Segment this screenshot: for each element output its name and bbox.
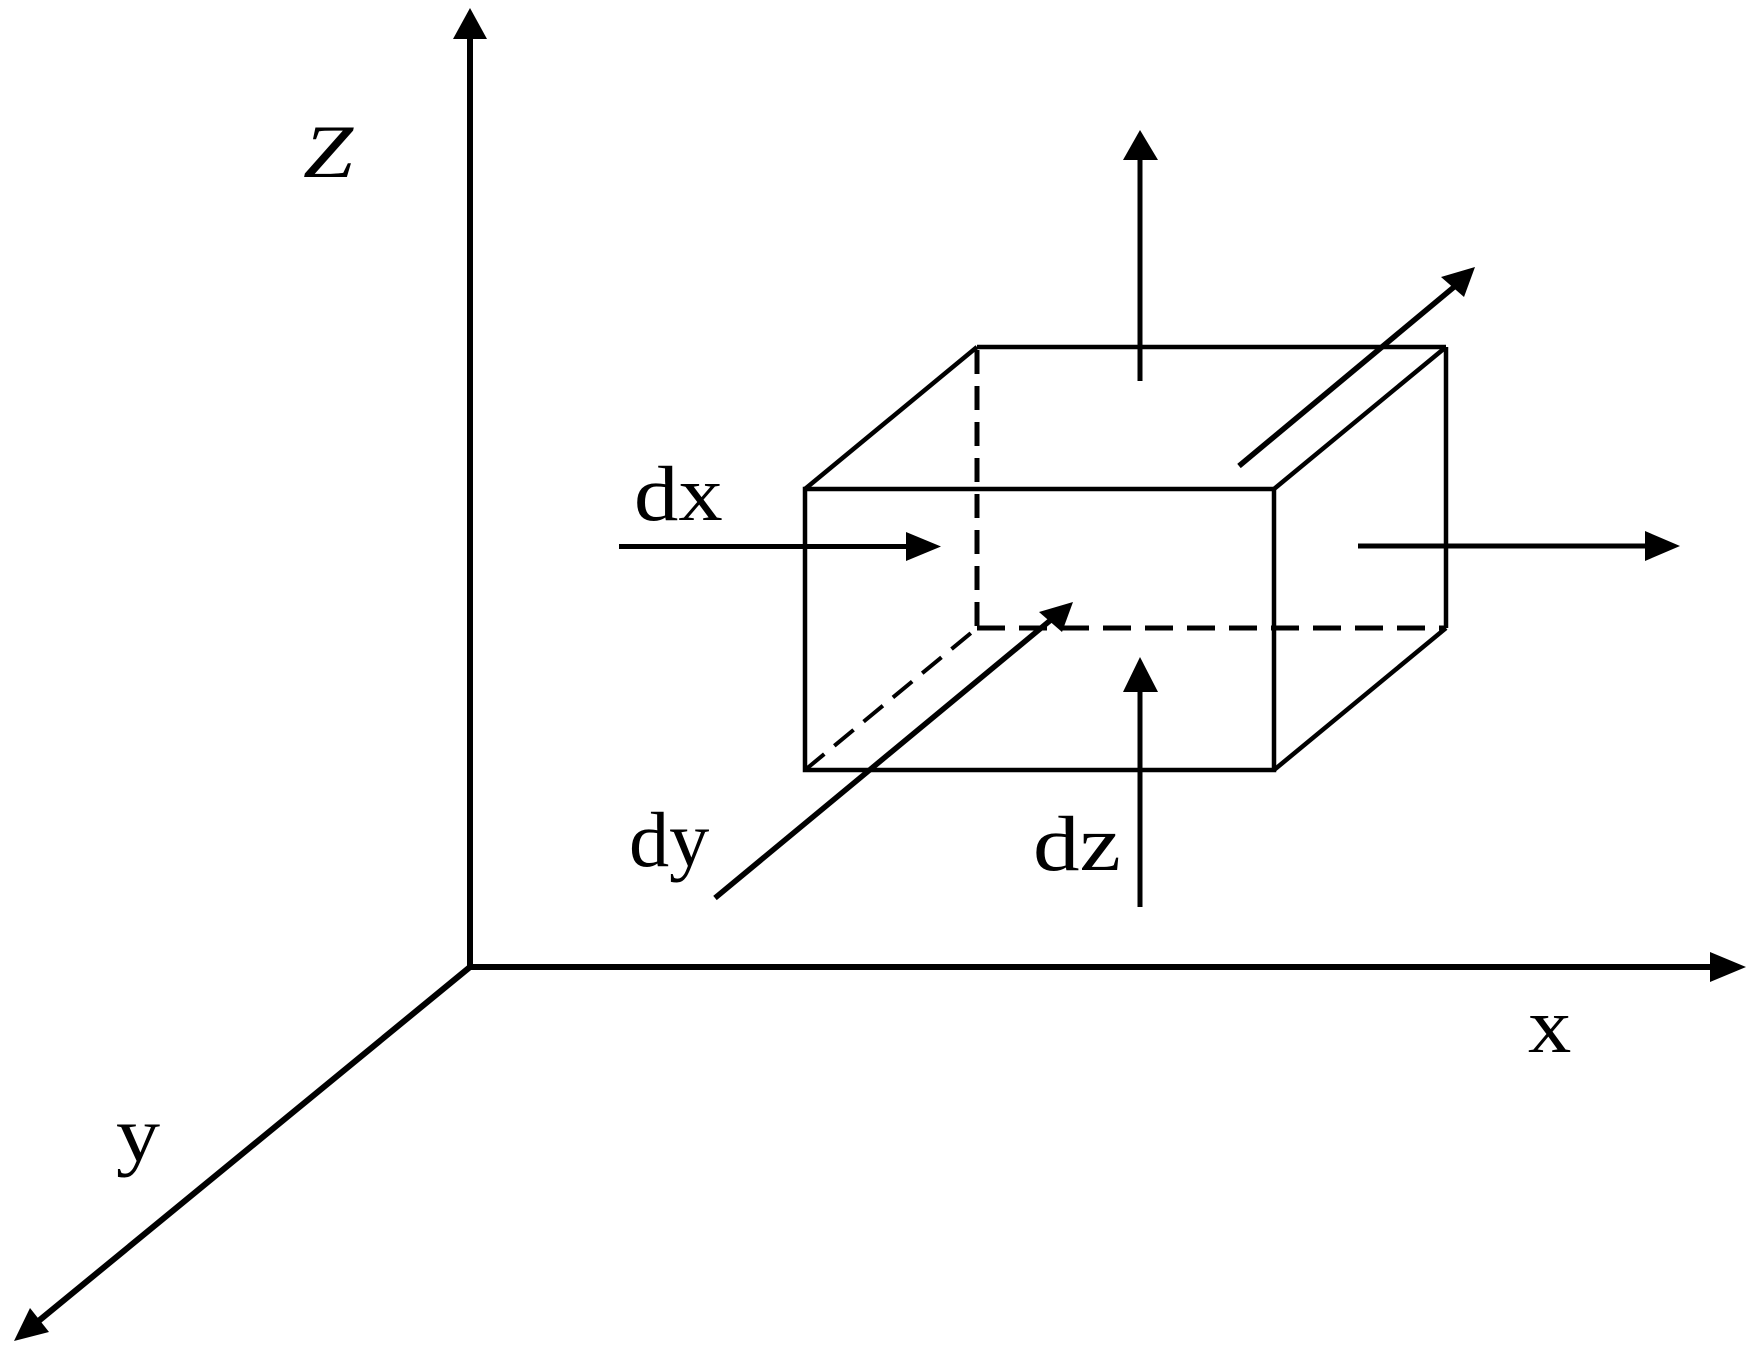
svg-text:Z: Z xyxy=(303,110,354,193)
flux arrow dz (up into bottom face) xyxy=(1123,657,1158,907)
flux arrow out of back face (top-right diagonal) xyxy=(1239,267,1475,466)
flux arrow dy (diagonal into bottom) xyxy=(715,602,1073,898)
svg-text:dx: dx xyxy=(634,452,723,538)
flux arrow out of top face xyxy=(1123,130,1158,381)
flux arrow out of right face xyxy=(1358,531,1680,561)
box front face xyxy=(805,489,1274,770)
svg-text:x: x xyxy=(1528,983,1571,1069)
box bottom-right edge xyxy=(1274,628,1446,770)
svg-text:dz: dz xyxy=(1033,800,1121,887)
y-axis xyxy=(14,967,470,1341)
z-axis xyxy=(453,8,487,967)
box hidden bottom-left diagonal edge (dashed) xyxy=(805,628,977,770)
box hidden back-bottom edge (dashed) xyxy=(977,626,1446,631)
box back-top edge xyxy=(977,345,1446,350)
flux arrow dx (into left face) xyxy=(619,532,941,561)
box top-left edge xyxy=(805,347,977,489)
svg-text:y: y xyxy=(116,1093,160,1179)
box top-right edge xyxy=(1274,347,1446,489)
box hidden back-left vertical edge (dashed) xyxy=(975,350,980,628)
svg-text:dy: dy xyxy=(629,797,710,884)
x-axis xyxy=(470,952,1746,982)
box back-right edge xyxy=(1444,347,1449,628)
